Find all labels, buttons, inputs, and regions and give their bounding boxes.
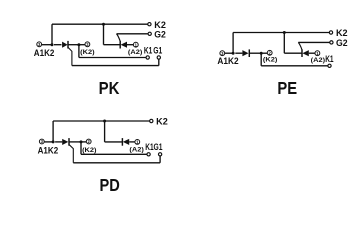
wire node K1 down to terminal K1 (PK) [79,45,146,58]
svg-text:A1K2: A1K2 [217,56,238,66]
wire rail drop to SCR cathode (PE) [284,33,301,54]
terminal K2 (PE) [329,31,332,34]
junction on top rail (PK) [102,23,105,26]
junction node K1 (PK) [77,43,80,46]
thyristor SCR2 (PK) [120,41,133,49]
terminal 1 (A2) of PE [315,51,320,56]
terminal K1 (PK) [146,56,149,59]
wire SCR1 cathode to node K1 (PD) [69,141,81,143]
terminal 2 (K2) of PD [86,139,91,144]
svg-text:G2: G2 [154,29,166,39]
svg-text:G1: G1 [154,142,163,152]
junction node A1 (PE) [232,52,235,55]
svg-text:K1: K1 [325,54,333,64]
wire stub to terminal 2 (PK) [79,44,85,46]
terminal K2 (PD) [150,119,153,122]
label G2 (PE) [336,38,348,48]
diode D1 (PE) [235,49,249,57]
label K2 (PK) [154,20,166,30]
thyristor SCR1 (PD) [55,138,69,146]
heading PD [100,175,120,195]
terminal 3 (A1K2) of PE [220,51,225,56]
svg-text:(A2): (A2) [311,57,325,64]
junction on top rail (PD) [103,120,106,123]
label (K2) (PE) [263,57,277,64]
heading PK [99,78,120,98]
terminal G1 (PD) [158,153,161,156]
label (K2) (PK) [80,49,94,56]
terminal G2 (PE) [330,41,333,44]
label G2 (PK) [154,29,166,39]
label K1 (PE) [325,54,333,64]
junction node A1 (PD) [52,140,55,143]
svg-text:G2: G2 [336,38,348,48]
svg-text:A1K2: A1K2 [38,146,59,156]
terminal K2 (PK) [148,23,151,26]
wire stub to terminal 2 (PD) [81,141,87,143]
wire terminal3 to node A1 (PE) [225,52,233,54]
wire terminal3 to node A1 (PD) [44,141,53,143]
junction node K1 (PD) [80,140,83,143]
label (A2) (PD) [129,146,143,153]
heading PE [277,78,297,98]
label A1K2 (PK) [34,48,55,58]
terminal K1 bottom (PE) [328,64,331,67]
terminal 1 (A2) of PK [133,42,138,47]
junction on top rail (PE) [283,31,286,34]
wire node K1 down to terminal K1 (PE) [261,53,327,66]
terminal 3 (A1K2) of PD [39,139,44,144]
svg-text:A1K2: A1K2 [34,48,55,58]
diode D2 (PD) [122,138,134,146]
svg-text:K1: K1 [144,46,152,56]
label G1 (PK) [153,46,162,56]
terminal G2 (PK) [148,32,151,35]
gate wire SCR2 to G2 (PE) [298,42,329,49]
svg-text:(K2): (K2) [80,49,94,56]
terminal G1 (PK) [157,56,160,59]
label (A2) (PE) [311,57,325,64]
terminal 2 (K2) of PE [267,50,272,55]
label A1K2 (PD) [38,146,59,156]
wire rail drop to SCR2 cathode (PK) [104,24,120,45]
wire node A1 up to top rail (PE) [232,33,234,54]
label K1 (PD) [145,142,153,152]
svg-text:G1: G1 [153,46,162,56]
wire terminal3 to node A1 (PK) [42,44,52,46]
junction node A1 (PK) [51,43,54,46]
wire stub to terminal 2 (PE) [261,52,267,54]
terminal 3 (A1K2) of PK [37,42,42,47]
terminal 2 (K2) of PK [85,42,90,47]
terminal K1 (PD) [147,153,150,156]
thyristor SCR2 (PE) [302,49,315,57]
gate wire SCR1 to G1 (PD) [69,145,160,163]
svg-text:PE: PE [277,78,297,98]
label K2 (PD) [156,117,168,127]
svg-text:PK: PK [99,78,120,98]
label (A2) (PK) [128,49,142,56]
gate wire SCR1 to G1 (PK) [68,48,159,66]
wire node A1 up to top rail (PD) [52,121,54,142]
svg-text:K2: K2 [154,20,166,30]
label (K2) (PD) [82,147,96,154]
wire top rail to K2 (PE) [233,32,329,34]
gate wire SCR2 to G2 (PK) [117,34,148,42]
svg-text:(A2): (A2) [129,146,143,153]
label A1K2 (PE) [217,56,238,66]
label G1 (PD) [154,142,163,152]
wire rail drop to diode cathode (PD) [105,121,122,142]
wire node A1 up to top rail (PK) [51,24,53,45]
wire top rail to K2 (PK) [52,23,148,25]
wire diode cathode to node K1 (PE) [249,52,261,54]
thyristor SCR1 (PK) [54,41,68,49]
wire SCR1 cathode to node K1 (PK) [68,44,79,46]
svg-text:(K2): (K2) [82,147,96,154]
terminal 1 (A2) of PD [135,140,140,145]
wire node K1 down to terminal K1 (PD) [81,142,147,154]
wire top rail to K2 (PD) [53,120,149,122]
svg-text:K1: K1 [145,142,153,152]
svg-text:K2: K2 [156,117,168,127]
junction node K1 (PE) [260,52,263,55]
svg-text:PD: PD [100,175,120,195]
label K2 (PE) [336,28,348,38]
label K1 (PK) [144,46,152,56]
svg-text:K2: K2 [336,28,348,38]
svg-text:(A2): (A2) [128,49,142,56]
svg-text:(K2): (K2) [263,57,277,64]
